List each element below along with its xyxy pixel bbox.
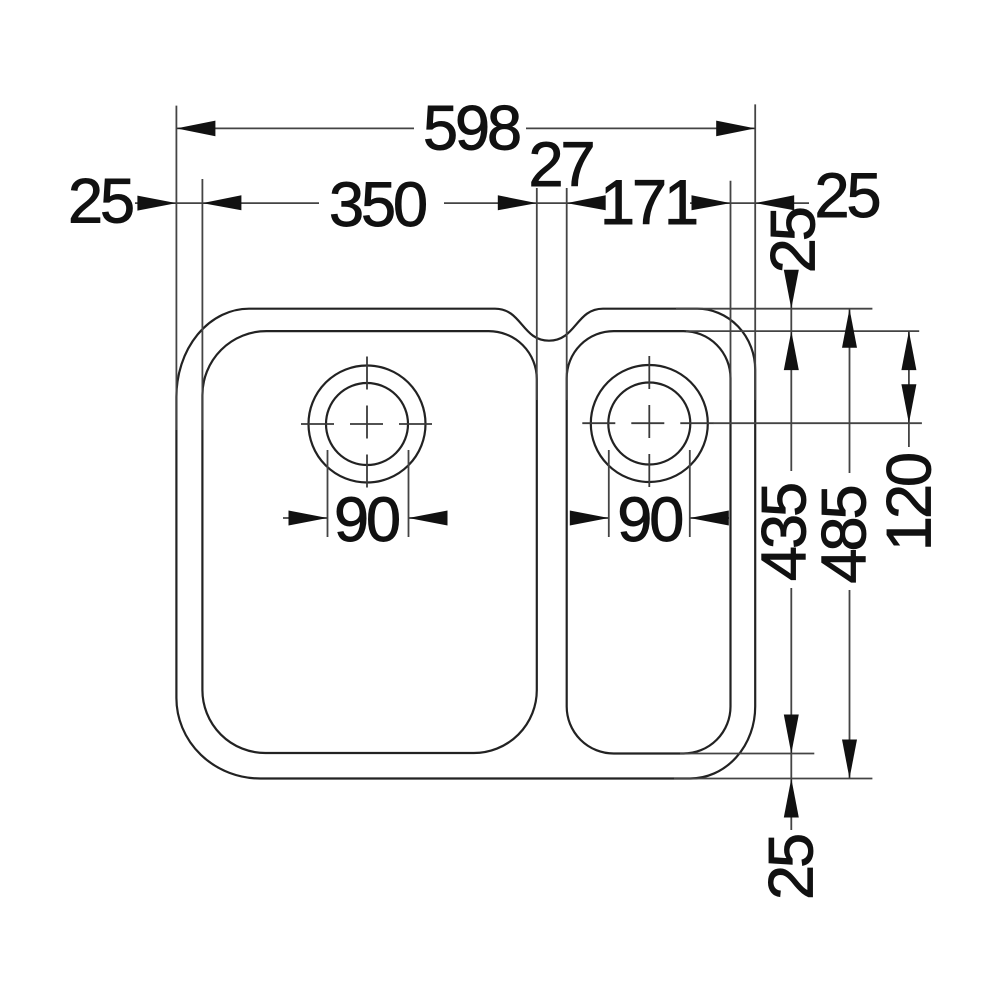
svg-text:90: 90 [617,485,682,555]
svg-text:485: 485 [810,486,880,583]
svg-text:171: 171 [600,168,696,238]
svg-text:25: 25 [759,208,829,273]
svg-text:90: 90 [334,485,399,555]
svg-text:120: 120 [875,454,945,551]
svg-text:598: 598 [423,94,520,164]
svg-text:27: 27 [528,130,592,200]
svg-text:25: 25 [68,167,133,237]
svg-text:350: 350 [329,170,426,240]
svg-text:25: 25 [757,835,827,900]
